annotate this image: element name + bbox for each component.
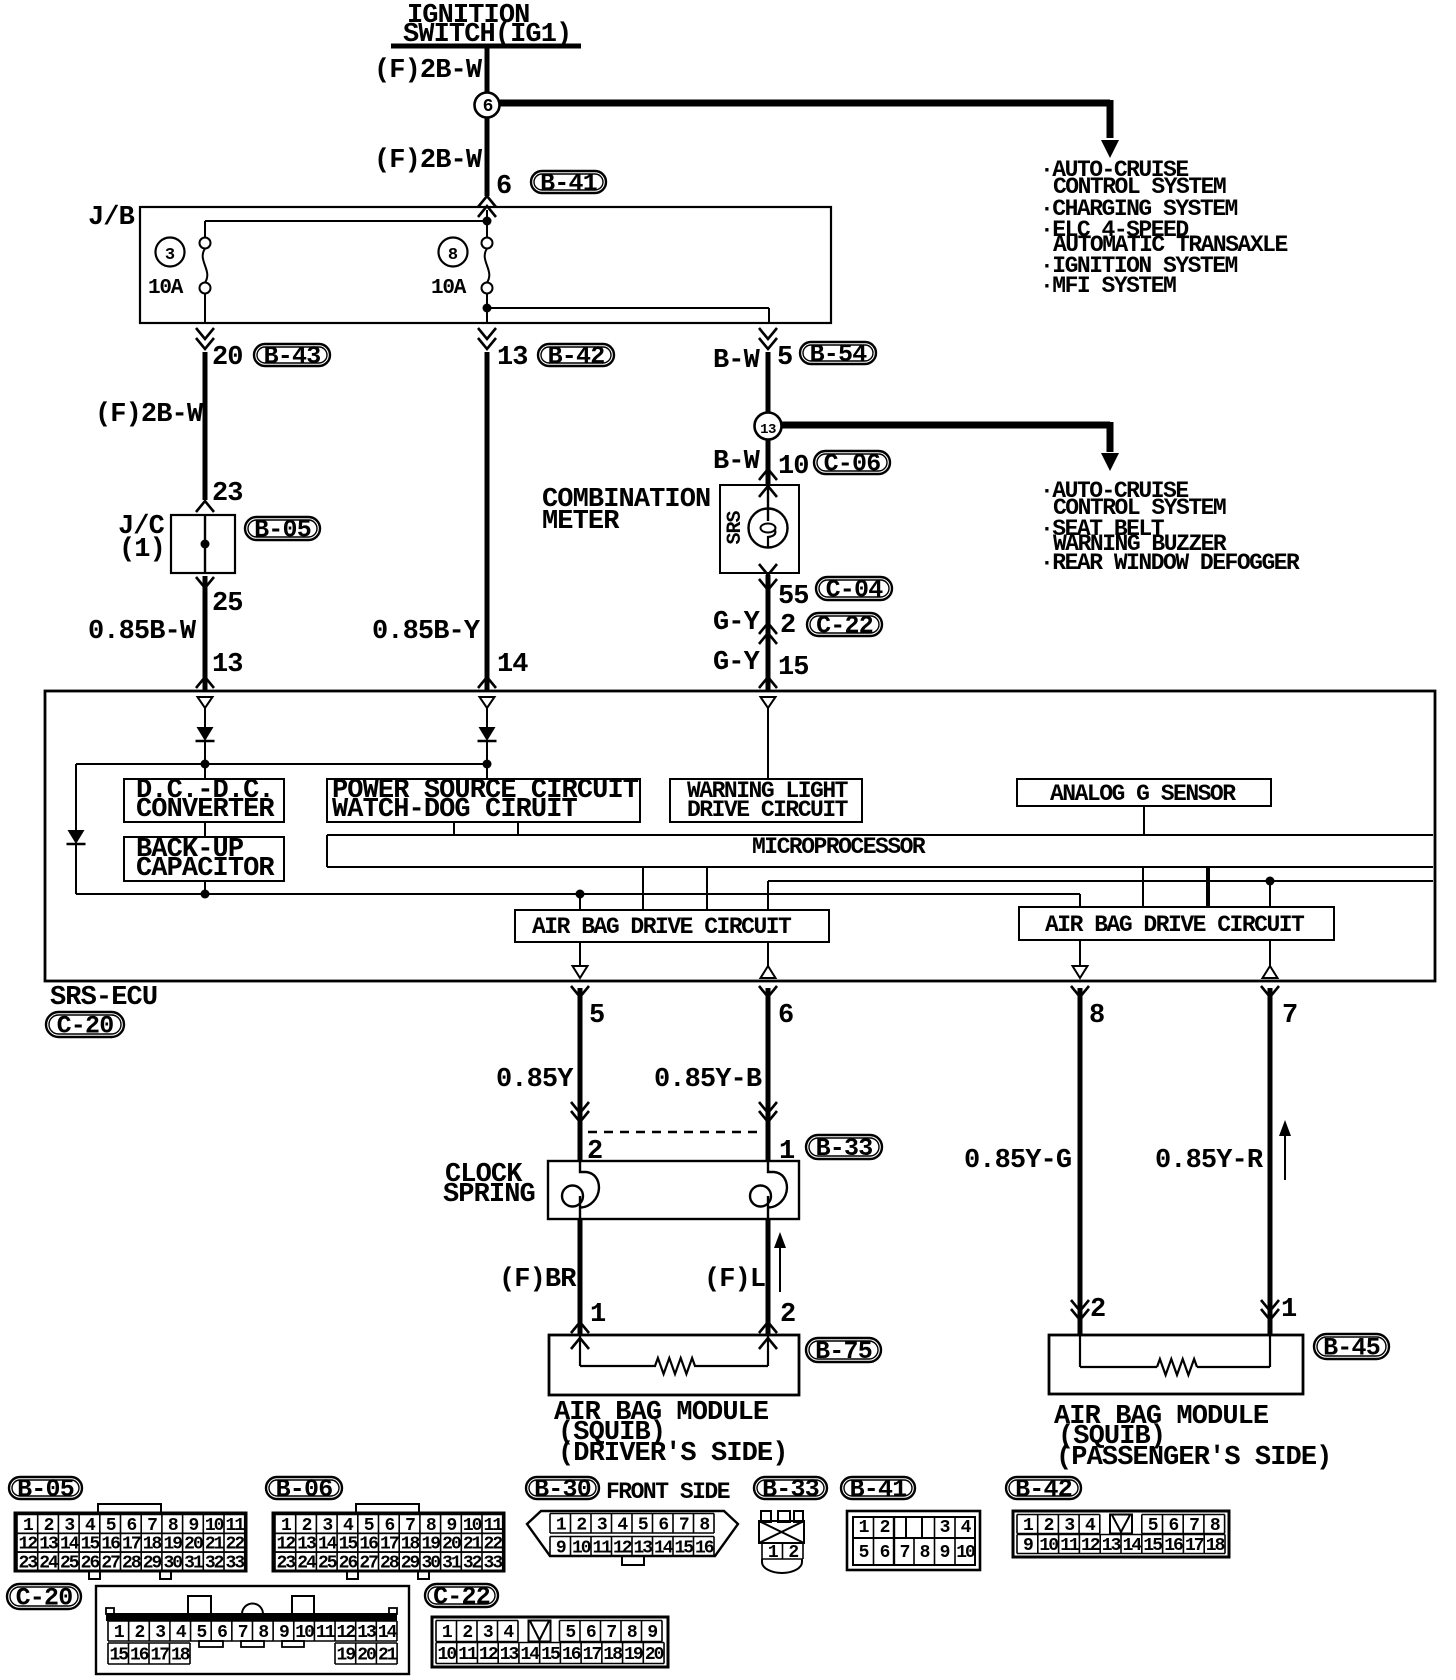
- FRONT SIDE label: [606, 1479, 730, 1505]
- junction block J/B box: [88, 203, 831, 323]
- svg-text:10: 10: [778, 452, 809, 482]
- pin 23 label: [212, 479, 243, 509]
- wire col2 rail to power source circuit: [486, 764, 488, 779]
- arrow at C-22 crossing: [759, 623, 777, 644]
- svg-text:10A: 10A: [148, 277, 184, 300]
- arrow into driver airbag pin2: [759, 1322, 777, 1349]
- svg-text:1: 1: [114, 1623, 125, 1643]
- svg-text:4: 4: [961, 1518, 972, 1538]
- svg-text:DRIVE CIRCUIT: DRIVE CIRCUIT: [687, 797, 849, 823]
- connector label B-41 oval at J/B entry: [531, 169, 606, 198]
- svg-text:33: 33: [484, 1554, 503, 1574]
- svg-text:FRONT SIDE: FRONT SIDE: [606, 1479, 730, 1505]
- svg-text:B-33: B-33: [762, 1475, 819, 1504]
- WARNING LIGHT DRIVE CIRCUIT box: [670, 708, 862, 823]
- svg-text:C-22: C-22: [433, 1583, 490, 1612]
- arrows out of combination meter: [759, 564, 777, 590]
- clock spring box: [548, 1161, 799, 1219]
- wire back-up capacitor to ground rail: [204, 881, 206, 894]
- svg-text:B-33: B-33: [816, 1134, 873, 1163]
- wire label 0.85Y: [496, 1065, 574, 1095]
- svg-text:8: 8: [920, 1543, 930, 1563]
- svg-text:B-05: B-05: [17, 1475, 74, 1504]
- wire clock spring to driver airbag pin1: [578, 1219, 583, 1335]
- svg-text:SRS: SRS: [724, 511, 747, 545]
- svg-text:12: 12: [337, 1623, 356, 1643]
- wire rail y=881 to airbag drive circuits: [768, 877, 1433, 911]
- svg-text:1: 1: [1281, 1295, 1297, 1325]
- connector label B-75 oval: [806, 1337, 881, 1366]
- arrow into ECU col3: [759, 677, 777, 688]
- svg-text:13: 13: [1102, 1536, 1121, 1556]
- svg-text:33: 33: [226, 1554, 245, 1574]
- svg-text:SRS-ECU: SRS-ECU: [50, 983, 157, 1013]
- svg-text:10: 10: [295, 1623, 314, 1643]
- SRS lamp label rotated: [724, 511, 747, 545]
- svg-text:16: 16: [130, 1646, 149, 1666]
- fuse 3 circle label: [156, 238, 185, 267]
- ECU input terminal col3: [761, 697, 776, 708]
- svg-text:G-Y: G-Y: [713, 608, 761, 638]
- heavy bus wire from junction 13 to right systems arrow: [781, 422, 1119, 471]
- wire label 0.85Y-B: [654, 1065, 762, 1095]
- svg-text:WATCH-DOG CIRUIT: WATCH-DOG CIRUIT: [332, 795, 578, 825]
- svg-text:7: 7: [606, 1623, 616, 1643]
- svg-text:14: 14: [378, 1623, 398, 1643]
- svg-text:8: 8: [258, 1623, 268, 1643]
- ECU input terminal col1: [198, 697, 213, 708]
- wire label 0.85B-Y: [372, 617, 481, 647]
- svg-text:B-45: B-45: [1323, 1334, 1380, 1363]
- svg-text:7: 7: [238, 1623, 248, 1643]
- driver airbag pin 1 label: [590, 1300, 606, 1330]
- systems list fed from junction 13: [1040, 478, 1300, 576]
- svg-text:2: 2: [1090, 1295, 1105, 1325]
- wire label G-Y upper / pin 2 / connector C-22: [713, 608, 795, 641]
- connector view C-20 label: [7, 1584, 81, 1613]
- svg-text:(F)2B-W: (F)2B-W: [95, 400, 204, 430]
- svg-text:C-04: C-04: [826, 576, 884, 605]
- clock spring pin 1 label: [779, 1137, 795, 1167]
- svg-text:C-20: C-20: [16, 1584, 73, 1613]
- arrow out of J/B exit 5: [759, 328, 777, 349]
- pin 8 label below ECU: [1089, 1001, 1104, 1031]
- connector view B-42 pinout: [1013, 1511, 1229, 1557]
- wire 8 ECU to passenger airbag: [1078, 988, 1083, 1334]
- wire DC-DC to back-up capacitor: [204, 822, 206, 837]
- wire 5 ECU to clock spring: [578, 988, 583, 1160]
- arrow into passenger airbag pin2: [1071, 1300, 1089, 1320]
- wire col3 J/B to junction 13: [766, 352, 771, 413]
- svg-text:AIR BAG DRIVE CIRCUIT: AIR BAG DRIVE CIRCUIT: [532, 914, 792, 940]
- wire label (F)2B-W col1: [95, 400, 204, 430]
- svg-text:14: 14: [1123, 1536, 1143, 1556]
- junction circle 13: [755, 413, 782, 440]
- svg-text:24: 24: [39, 1554, 59, 1574]
- ECU output terminal pin8: [1073, 940, 1088, 978]
- svg-text:5: 5: [859, 1543, 869, 1563]
- svg-text:28: 28: [380, 1554, 399, 1574]
- pin 14 label at ECU: [497, 650, 528, 680]
- passenger airbag pin 2 label: [1090, 1295, 1105, 1325]
- svg-text:8: 8: [699, 1515, 709, 1535]
- svg-text:9: 9: [647, 1623, 657, 1643]
- svg-text:10: 10: [572, 1538, 591, 1558]
- wire col2 J/B to SRS-ECU: [485, 352, 490, 691]
- driver airbag pin 2 label: [780, 1300, 795, 1330]
- svg-text:2: 2: [1044, 1516, 1054, 1536]
- svg-text:23: 23: [19, 1554, 38, 1574]
- svg-text:10A: 10A: [431, 277, 467, 300]
- svg-text:CAPACITOR: CAPACITOR: [136, 854, 275, 884]
- wire: ignition switch to junction 6: [485, 46, 490, 94]
- svg-text:32: 32: [205, 1554, 224, 1574]
- svg-text:B-06: B-06: [276, 1475, 333, 1504]
- svg-text:3: 3: [165, 246, 175, 265]
- svg-text:29: 29: [401, 1554, 420, 1574]
- ECU output terminal pin7: [1263, 940, 1278, 978]
- svg-text:CONVERTER: CONVERTER: [136, 795, 275, 825]
- node: IGNITION SWITCH(IG1) source label: [391, 1, 581, 50]
- svg-text:5: 5: [565, 1623, 575, 1643]
- svg-text:0.85Y-B: 0.85Y-B: [654, 1065, 762, 1095]
- pin 55 label and connector C-04: [778, 582, 809, 612]
- arrows into combination meter: [759, 469, 777, 497]
- svg-text:6: 6: [1168, 1516, 1178, 1536]
- arrow into ECU col1: [196, 677, 214, 688]
- connector view B-33 label: [754, 1475, 827, 1504]
- ECU output terminal pin5: [573, 942, 588, 978]
- wire label (F)2B-W lower: [374, 146, 483, 176]
- svg-text:(F)2B-W: (F)2B-W: [374, 56, 483, 86]
- clock spring coil left: [562, 1161, 599, 1219]
- COMBINATION METER label: [542, 485, 710, 537]
- arrow into J/C: [196, 501, 214, 512]
- svg-text:2: 2: [880, 1518, 890, 1538]
- svg-text:18: 18: [603, 1645, 622, 1665]
- wire fuse8 to J/B bottom exit 13 with branch to exit 5: [483, 293, 770, 322]
- wire: junction 6 down to J/B: [485, 117, 490, 196]
- svg-text:2: 2: [780, 611, 795, 641]
- systems list fed from IG1 junction 6: [1040, 157, 1287, 299]
- svg-text:5: 5: [589, 1001, 604, 1031]
- current flow arrow driver side: [774, 1232, 786, 1292]
- svg-text:15: 15: [109, 1646, 128, 1666]
- svg-text:2: 2: [587, 1137, 602, 1167]
- svg-text:B-42: B-42: [1015, 1475, 1072, 1504]
- svg-text:17: 17: [1185, 1536, 1204, 1556]
- svg-text:B-75: B-75: [815, 1337, 872, 1366]
- connector view B-06 pinout: [273, 1504, 504, 1579]
- svg-text:25: 25: [318, 1554, 337, 1574]
- wire 6 ECU to clock spring: [766, 988, 771, 1160]
- pin 20 label and connector B-43: [212, 343, 243, 373]
- svg-text:3: 3: [940, 1518, 950, 1538]
- svg-text:7: 7: [679, 1515, 689, 1535]
- svg-text:SPRING: SPRING: [443, 1180, 535, 1210]
- svg-text:1: 1: [779, 1137, 795, 1167]
- passenger airbag squib circuit: [1080, 1335, 1270, 1375]
- connector view B-41 pinout: [847, 1511, 980, 1570]
- svg-text:B-30: B-30: [534, 1475, 591, 1504]
- wire clock spring to driver airbag pin2: [766, 1219, 771, 1335]
- svg-text:J/B: J/B: [88, 203, 135, 233]
- arrow out of J/B exit 20: [196, 328, 214, 349]
- svg-text:16: 16: [562, 1645, 581, 1665]
- fuse 8 circle label: [439, 238, 468, 267]
- svg-text:B-W: B-W: [713, 447, 761, 477]
- svg-text:0.85Y-G: 0.85Y-G: [964, 1146, 1071, 1176]
- svg-text:10: 10: [438, 1645, 457, 1665]
- svg-text:·REAR WINDOW DEFOGGER: ·REAR WINDOW DEFOGGER: [1040, 550, 1300, 576]
- svg-text:(DRIVER'S SIDE): (DRIVER'S SIDE): [558, 1439, 788, 1469]
- svg-text:3: 3: [155, 1623, 165, 1643]
- svg-text:13: 13: [212, 650, 243, 680]
- wire inside J/B from pin6 entry to fuses: [205, 210, 492, 238]
- svg-text:17: 17: [150, 1646, 169, 1666]
- svg-text:6: 6: [778, 1001, 793, 1031]
- arrow into J/B top (pin 6): [478, 196, 496, 217]
- wire 7 ECU to passenger airbag: [1268, 988, 1273, 1334]
- AIR BAG DRIVE CIRCUIT box passenger side: [1019, 907, 1334, 940]
- svg-text:5: 5: [638, 1515, 648, 1535]
- svg-text:0.85Y-R: 0.85Y-R: [1155, 1146, 1264, 1176]
- svg-text:4: 4: [176, 1623, 187, 1643]
- wire label B-W below junction: [713, 447, 761, 477]
- svg-text:14: 14: [654, 1538, 674, 1558]
- wire label 0.85Y-G: [964, 1146, 1071, 1176]
- connector label B-45 oval: [1314, 1334, 1389, 1363]
- svg-text:2: 2: [780, 1300, 795, 1330]
- pin 7 label below ECU: [1282, 1001, 1297, 1031]
- svg-text:11: 11: [458, 1645, 478, 1665]
- svg-text:1: 1: [590, 1300, 606, 1330]
- svg-text:1: 1: [768, 1543, 779, 1563]
- svg-text:15: 15: [541, 1645, 560, 1665]
- svg-text:B-43: B-43: [264, 342, 321, 371]
- heavy bus wire from junction 6 to right systems arrow: [499, 100, 1119, 158]
- connector view C-22 pinout: [432, 1617, 668, 1667]
- pin 10 label and connector C-06: [778, 452, 809, 482]
- wire col1 J/C to SRS-ECU: [203, 576, 208, 691]
- svg-text:25: 25: [212, 589, 243, 619]
- svg-text:16: 16: [1164, 1536, 1183, 1556]
- svg-text:8: 8: [627, 1623, 637, 1643]
- D.C.-D.C. CONVERTER box: [124, 776, 284, 825]
- wire label (F)L: [704, 1265, 765, 1295]
- svg-text:2: 2: [576, 1515, 586, 1535]
- svg-text:11: 11: [1060, 1536, 1080, 1556]
- svg-text:27: 27: [101, 1554, 120, 1574]
- svg-text:19: 19: [337, 1646, 356, 1666]
- svg-text:15: 15: [1143, 1536, 1162, 1556]
- svg-text:14: 14: [520, 1645, 540, 1665]
- svg-text:5: 5: [196, 1623, 206, 1643]
- svg-text:13: 13: [497, 343, 528, 373]
- wire ECU power rail y=764: [76, 760, 492, 769]
- driver airbag module caption: [554, 1398, 788, 1469]
- arrow out of ECU pin 7: [1261, 986, 1279, 997]
- svg-text:8: 8: [448, 246, 458, 265]
- SRS-ECU name label: [50, 983, 157, 1013]
- svg-text:21: 21: [378, 1646, 398, 1666]
- connector view B-41 label: [841, 1475, 915, 1504]
- pin 13 label and connector B-42: [497, 343, 528, 373]
- svg-text:11: 11: [316, 1623, 336, 1643]
- svg-text:AIR BAG DRIVE CIRCUIT: AIR BAG DRIVE CIRCUIT: [1045, 912, 1305, 938]
- SRS-ECU box: [45, 691, 1435, 981]
- wire meter to C-22 crossing: [766, 575, 771, 691]
- svg-text:5: 5: [1148, 1516, 1158, 1536]
- svg-text:B-54: B-54: [810, 340, 868, 369]
- svg-text:14: 14: [497, 650, 528, 680]
- fuse 8 rating 10A: [431, 277, 467, 300]
- wire col1 rail to DC-DC converter: [204, 764, 206, 779]
- svg-text:3: 3: [483, 1623, 493, 1643]
- svg-text:15: 15: [674, 1538, 693, 1558]
- svg-text:5: 5: [777, 343, 792, 373]
- arrow into clock spring pin2: [571, 1102, 589, 1122]
- passenger airbag pin 1 label: [1281, 1295, 1297, 1325]
- svg-text:·MFI SYSTEM: ·MFI SYSTEM: [1040, 273, 1176, 299]
- svg-text:B-W: B-W: [713, 346, 761, 376]
- connector label B-33 oval: [806, 1134, 882, 1163]
- connector view C-22 label: [425, 1583, 498, 1612]
- diode D1 col1: [196, 708, 215, 764]
- connector view B-30 label: [526, 1475, 599, 1504]
- wire label G-Y lower / pin 15: [713, 648, 809, 683]
- svg-text:12: 12: [479, 1645, 498, 1665]
- combination meter box (SRS warning lamp): [720, 485, 799, 573]
- svg-text:6: 6: [880, 1543, 890, 1563]
- wire label 0.85Y-R: [1155, 1146, 1264, 1176]
- svg-text:19: 19: [624, 1645, 643, 1665]
- junction circle 6: [475, 93, 500, 118]
- svg-text:27: 27: [359, 1554, 378, 1574]
- svg-text:METER: METER: [542, 507, 620, 537]
- svg-text:(F)2B-W: (F)2B-W: [374, 146, 483, 176]
- svg-text:9: 9: [279, 1623, 289, 1643]
- svg-text:C-20: C-20: [57, 1012, 114, 1041]
- arrow into passenger airbag pin1: [1261, 1300, 1279, 1320]
- svg-text:8: 8: [1210, 1516, 1220, 1536]
- wire label (F)2B-W upper: [374, 56, 483, 86]
- svg-text:23: 23: [212, 479, 243, 509]
- svg-text:6: 6: [586, 1623, 596, 1643]
- wire label B-W / pin 5 / connector B-54: [713, 343, 792, 376]
- fuse 3 symbol: [200, 238, 211, 294]
- arrow out of ECU pin 5: [571, 986, 589, 997]
- diode D2 col2: [478, 708, 497, 764]
- ECU output terminal pin6: [761, 942, 776, 978]
- MICROPROCESSOR box: [327, 834, 1433, 867]
- fuse 8 symbol: [482, 238, 493, 294]
- wire through J/C with junction dot: [201, 515, 210, 573]
- pin 6 label at J/B entry: [496, 172, 511, 202]
- wires microprocessor to right airbag drive circuit: [1143, 867, 1208, 907]
- svg-text:ANALOG G SENSOR: ANALOG G SENSOR: [1050, 781, 1236, 807]
- CLOCK SPRING label: [443, 1160, 535, 1210]
- svg-text:6: 6: [483, 97, 493, 117]
- wire label (F)BR: [499, 1265, 577, 1295]
- connector view C-20 pinout: [96, 1586, 409, 1674]
- svg-text:9: 9: [1023, 1536, 1033, 1556]
- svg-text:31: 31: [442, 1554, 462, 1574]
- svg-text:7: 7: [900, 1543, 910, 1563]
- arrow into clock spring pin1: [759, 1102, 777, 1122]
- fuse 3 rating 10A: [148, 277, 184, 300]
- connector label C-20 oval: [46, 1012, 124, 1041]
- svg-text:B-41: B-41: [850, 1475, 907, 1504]
- svg-text:25: 25: [60, 1554, 79, 1574]
- svg-text:3: 3: [597, 1515, 607, 1535]
- svg-text:6: 6: [496, 172, 511, 202]
- svg-text:12: 12: [1081, 1536, 1100, 1556]
- svg-text:C-06: C-06: [824, 450, 881, 479]
- svg-text:15: 15: [778, 653, 809, 683]
- svg-text:(F)BR: (F)BR: [499, 1265, 577, 1295]
- ECU input terminal col2: [480, 697, 495, 708]
- POWER SOURCE CIRCUIT WATCH-DOG CIRCUIT box: [327, 776, 640, 825]
- wire col1 from J/B to J/C: [203, 352, 208, 500]
- svg-text:9: 9: [940, 1543, 950, 1563]
- svg-text:32: 32: [463, 1554, 482, 1574]
- svg-text:(F)L: (F)L: [704, 1265, 765, 1295]
- svg-text:G-Y: G-Y: [713, 648, 761, 678]
- svg-text:23: 23: [277, 1554, 296, 1574]
- svg-text:B-42: B-42: [548, 342, 605, 371]
- svg-text:20: 20: [645, 1645, 664, 1665]
- connector view B-30 pinout: [527, 1511, 738, 1565]
- svg-text:6: 6: [217, 1623, 227, 1643]
- arrow out of ECU pin 6: [759, 986, 777, 997]
- clock spring pin 2 label: [587, 1137, 602, 1167]
- pin 25 label: [212, 589, 243, 619]
- arrow into ECU col2: [478, 677, 496, 688]
- svg-text:18: 18: [171, 1646, 190, 1666]
- driver airbag squib circuit: [580, 1335, 768, 1374]
- current flow arrow passenger side: [1279, 1120, 1291, 1180]
- svg-text:C-22: C-22: [816, 612, 873, 641]
- svg-text:1: 1: [442, 1623, 453, 1643]
- svg-text:(1): (1): [119, 535, 165, 565]
- svg-text:4: 4: [503, 1623, 514, 1643]
- svg-text:13: 13: [760, 422, 776, 438]
- passenger airbag module caption: [1054, 1402, 1331, 1473]
- svg-text:9: 9: [556, 1538, 566, 1558]
- wires microprocessor to left airbag drive circuit: [643, 867, 707, 910]
- joint connector J/C (1) box: [118, 512, 235, 573]
- svg-text:0.85B-W: 0.85B-W: [88, 617, 197, 647]
- svg-text:29: 29: [143, 1554, 162, 1574]
- svg-text:18: 18: [1206, 1536, 1225, 1556]
- svg-text:55: 55: [778, 582, 809, 612]
- svg-text:B-05: B-05: [254, 516, 311, 545]
- svg-text:3: 3: [1064, 1516, 1074, 1536]
- driver airbag module box: [549, 1335, 799, 1395]
- svg-text:B-41: B-41: [540, 169, 597, 198]
- svg-text:0.85B-Y: 0.85B-Y: [372, 617, 481, 647]
- clock spring coil right: [750, 1161, 787, 1219]
- connector view B-05 label: [9, 1475, 82, 1504]
- svg-text:17: 17: [583, 1645, 602, 1665]
- wire fuse3 to J/B bottom exit 20: [204, 293, 206, 322]
- svg-text:7: 7: [1282, 1001, 1297, 1031]
- svg-text:20: 20: [357, 1646, 376, 1666]
- connector view B-05 pinout: [15, 1504, 246, 1579]
- svg-text:7: 7: [1189, 1516, 1199, 1536]
- svg-text:(PASSENGER'S SIDE): (PASSENGER'S SIDE): [1056, 1443, 1331, 1473]
